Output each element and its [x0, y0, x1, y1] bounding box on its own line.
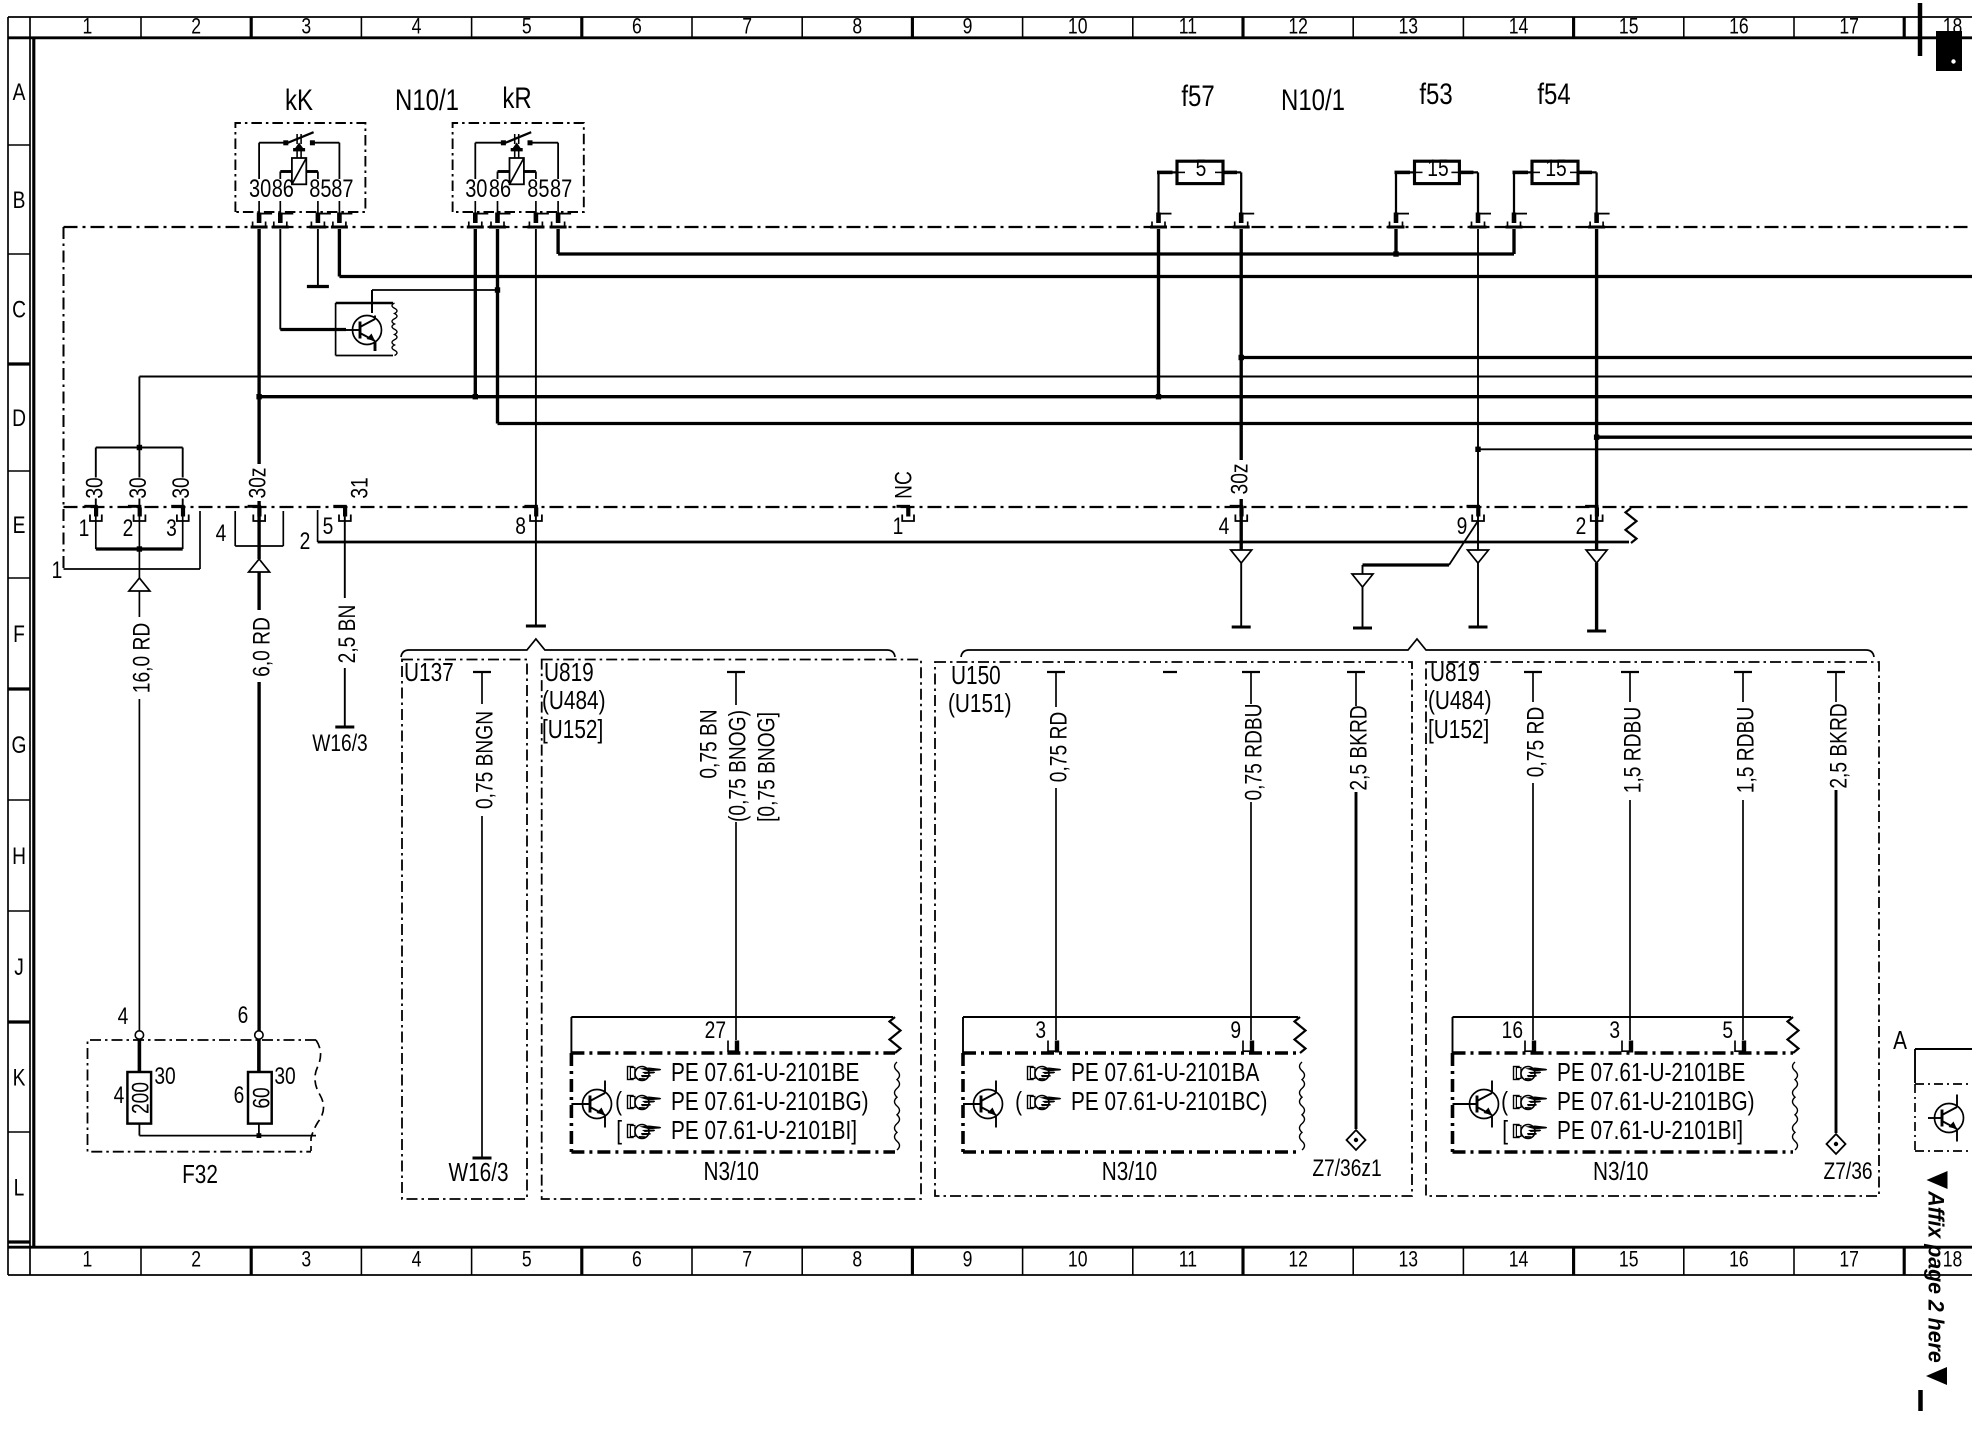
- svg-text:(U484): (U484): [542, 686, 606, 715]
- svg-text:200: 200: [126, 1082, 154, 1114]
- svg-text:16: 16: [1729, 1248, 1749, 1272]
- svg-text:PE 07.61-U-2101BE: PE 07.61-U-2101BE: [671, 1058, 859, 1087]
- fuse f53 left lead: [1396, 171, 1415, 173]
- wire kK-85 termination: [317, 229, 319, 285]
- svg-text:16,0 RD: 16,0 RD: [127, 623, 155, 693]
- svg-text:3: 3: [1609, 1016, 1620, 1044]
- control unit N3/10 3 inner dash-dot box: [1453, 1051, 1794, 1055]
- svg-text:5: 5: [323, 512, 334, 540]
- svg-text:(: (: [1501, 1087, 1508, 1116]
- top ruler band: [8, 36, 1972, 39]
- svg-text:J: J: [14, 953, 24, 981]
- junction transistor collector / kR-86: [495, 287, 500, 292]
- junction kK-30 bus: [256, 394, 261, 399]
- svg-text:2: 2: [1576, 512, 1587, 540]
- pin 4b drop to ground: [1240, 517, 1243, 551]
- relay kR pins at module boundary: [473, 213, 478, 224]
- svg-text:4: 4: [216, 519, 227, 547]
- relay kR switch contact: [501, 140, 506, 145]
- svg-text:PE 07.61-U-2101BI]: PE 07.61-U-2101BI]: [671, 1116, 857, 1145]
- svg-text:15: 15: [1545, 154, 1566, 182]
- svg-text:31: 31: [345, 477, 373, 498]
- U819b stub 1,5 RDBU #2: [1734, 671, 1752, 673]
- svg-text:F: F: [13, 620, 25, 648]
- svg-text:6,0 RD: 6,0 RD: [247, 617, 275, 677]
- svg-text:10: 10: [1068, 1248, 1088, 1272]
- box U819 (U484) [U152] left: [542, 660, 921, 1200]
- svg-text:F32: F32: [182, 1160, 218, 1189]
- svg-text:30: 30: [154, 1062, 175, 1090]
- relay kK switch contact: [283, 140, 288, 145]
- pin 8: [524, 505, 538, 508]
- page outer border: [8, 16, 1972, 18]
- box U819 (U484) [U152] right: [1426, 662, 1879, 1196]
- wire kR-85 down to pin 8: [535, 229, 537, 507]
- N3/10 3 reference row 1: [1514, 1067, 1548, 1081]
- svg-text:30: 30: [465, 175, 487, 203]
- relay kR armature link: [514, 134, 516, 144]
- svg-text:2: 2: [123, 514, 134, 542]
- fuse f53 pins at module boundary: [1394, 213, 1399, 224]
- svg-text:11: 11: [1179, 15, 1197, 39]
- bottom ruler band: [8, 1246, 1972, 1249]
- svg-text:30z: 30z: [243, 468, 271, 499]
- wire f57-left down to 30z bus: [1157, 229, 1160, 397]
- svg-text:30: 30: [167, 477, 195, 498]
- svg-text:N3/10: N3/10: [1102, 1157, 1157, 1186]
- svg-text:30: 30: [249, 175, 271, 203]
- svg-text:E: E: [13, 511, 26, 539]
- svg-text:G: G: [12, 731, 27, 759]
- fuse f54 pins at module boundary: [1512, 213, 1517, 224]
- fuse F32/4 (200A): [138, 1039, 142, 1072]
- svg-text:PE 07.61-U-2101BA: PE 07.61-U-2101BA: [1071, 1058, 1260, 1087]
- pin 9: [1467, 505, 1481, 508]
- U150 stub 2,5 BKRD to Z7/36z1: [1347, 671, 1365, 673]
- svg-text:B: B: [13, 186, 26, 214]
- svg-text:6: 6: [632, 1248, 642, 1272]
- pin 4 (30z): [248, 505, 262, 508]
- svg-text:N10/1: N10/1: [1281, 82, 1345, 116]
- ground W16/3 in U137: [473, 1157, 492, 1160]
- svg-text:60: 60: [247, 1087, 275, 1108]
- svg-text:7: 7: [742, 1248, 752, 1272]
- connector bracket 2 (pins5..2): [317, 510, 319, 542]
- svg-text:W16/3: W16/3: [448, 1158, 508, 1187]
- svg-text:(: (: [615, 1087, 622, 1116]
- relay kK pins at module boundary: [257, 213, 262, 224]
- N3/10 1 reference row 1: [628, 1067, 662, 1081]
- box U150 (U151): [935, 662, 1412, 1196]
- svg-text:kR: kR: [502, 80, 531, 114]
- svg-text:PE 07.61-U-2101BE: PE 07.61-U-2101BE: [1557, 1058, 1745, 1087]
- svg-text:1: 1: [79, 514, 90, 542]
- wire kR-86 down: [496, 229, 499, 424]
- svg-text:30z: 30z: [1226, 464, 1254, 495]
- svg-text:11: 11: [1179, 1248, 1197, 1272]
- svg-text:30: 30: [274, 1062, 295, 1090]
- U137 internal wire stub: [473, 671, 491, 673]
- svg-text:[: [: [616, 1116, 622, 1145]
- svg-text:86: 86: [272, 175, 294, 203]
- svg-text:[0,75 BNOG]: [0,75 BNOG]: [752, 712, 780, 822]
- pin 9 diagonal link: [1449, 521, 1478, 565]
- svg-text:U819: U819: [1430, 658, 1480, 687]
- svg-text:N10/1: N10/1: [395, 82, 459, 116]
- svg-text:9: 9: [1457, 512, 1468, 540]
- svg-text:30: 30: [80, 477, 108, 498]
- svg-text:W16/3: W16/3: [312, 729, 367, 757]
- relay kK dash-dot box: [235, 123, 365, 212]
- wire kK-87 to right edge: [338, 229, 341, 277]
- svg-text:9: 9: [963, 1248, 973, 1272]
- page split mark top right: [1918, 3, 1922, 56]
- svg-text:[U152]: [U152]: [542, 715, 603, 744]
- svg-text:3: 3: [166, 514, 177, 542]
- N10/1 module boundary bottom dash-dot line (E-row): [64, 506, 1973, 508]
- relay kK pin wires: [258, 143, 260, 179]
- svg-text:U150: U150: [951, 661, 1001, 690]
- brace over U137/U819: [401, 639, 895, 657]
- svg-text:(U151): (U151): [948, 689, 1012, 718]
- svg-text:6: 6: [632, 15, 642, 39]
- fuse f57 left lead: [1159, 171, 1178, 173]
- bus 30 (thin) from trio to right edge: [139, 376, 1972, 378]
- inline connector triangle 16,0RD: [129, 578, 150, 591]
- svg-text:PE 07.61-U-2101BG): PE 07.61-U-2101BG): [671, 1087, 869, 1116]
- relay kK coil: [292, 158, 306, 184]
- svg-text:Z7/36z1: Z7/36z1: [1312, 1154, 1381, 1182]
- fuse f57 right lead: [1223, 171, 1241, 173]
- U819 internal wire stub to pin 27: [727, 671, 745, 673]
- svg-text:Affix page 2 here: Affix page 2 here: [1923, 1190, 1948, 1362]
- connector bracket 1 (pins1-3): [199, 511, 201, 569]
- U150 stub 0,75 RDBU: [1242, 671, 1260, 673]
- svg-text:(U484): (U484): [1428, 686, 1492, 715]
- svg-text:U137: U137: [404, 658, 454, 687]
- svg-text:2,5 BKRD: 2,5 BKRD: [1344, 705, 1372, 790]
- svg-text:2: 2: [191, 1248, 201, 1272]
- pin 4b (30z): [1230, 505, 1244, 508]
- wire kR-87 to f53/f54 supply: [556, 229, 559, 254]
- control unit N3/10 2 inner dash-dot box: [963, 1051, 1300, 1055]
- svg-text:4: 4: [1219, 512, 1230, 540]
- svg-text:6: 6: [234, 1081, 245, 1109]
- pin 1 (30): [84, 505, 98, 508]
- fuse f54 left lead: [1514, 171, 1532, 173]
- pin 1 NC: [897, 505, 911, 508]
- svg-text:17: 17: [1839, 1248, 1859, 1272]
- svg-text:5: 5: [1196, 154, 1207, 182]
- svg-text:9: 9: [1230, 1016, 1241, 1044]
- svg-text:5: 5: [522, 1248, 532, 1272]
- N3/10 2 reference row 1: [1028, 1067, 1062, 1081]
- relay kR coil: [510, 158, 524, 184]
- N10/1 module boundary left dash-dot edge: [62, 227, 64, 569]
- svg-text:0,75 RD: 0,75 RD: [1044, 712, 1072, 782]
- U819b stub 1,5 RDBU #1: [1621, 671, 1639, 673]
- svg-text:f54: f54: [1537, 76, 1570, 110]
- trio connect bar: [96, 447, 183, 449]
- svg-text:87: 87: [550, 175, 572, 203]
- svg-text:6: 6: [238, 1001, 249, 1029]
- svg-text:2,5 BN: 2,5 BN: [333, 605, 361, 664]
- svg-text:NC: NC: [889, 471, 917, 499]
- svg-text:4: 4: [118, 1002, 129, 1030]
- svg-text:4: 4: [412, 15, 422, 39]
- wire f53 left drop: [1394, 229, 1397, 254]
- junction f54-right bus: [1594, 435, 1599, 440]
- svg-text:C: C: [12, 295, 26, 323]
- brace over U150/U819b: [961, 639, 1874, 657]
- svg-text:9: 9: [963, 15, 973, 39]
- relay kK armature link: [296, 134, 298, 144]
- wire f57-right down to pin 4b: [1240, 229, 1243, 460]
- fuse f53 body: [1415, 161, 1460, 183]
- svg-text:30: 30: [124, 477, 152, 498]
- svg-text:86: 86: [489, 175, 511, 203]
- svg-text:L: L: [14, 1173, 25, 1201]
- fuse f54 body: [1532, 161, 1578, 183]
- control unit N3/10 1 outline: [571, 1016, 893, 1018]
- relay kR dash-dot box: [453, 123, 584, 212]
- trio lower bracket to 16,0 RD wire: [95, 517, 97, 550]
- bus from kR-86 to right edge: [498, 422, 1973, 425]
- svg-text:8: 8: [852, 15, 862, 39]
- ruler column dividers and numbers: [140, 17, 142, 38]
- svg-text:15: 15: [1619, 1248, 1639, 1272]
- svg-text:2: 2: [191, 15, 201, 39]
- affix page 2 here note: [1927, 1171, 1948, 1189]
- svg-text:10: 10: [1068, 15, 1088, 39]
- svg-text:[: [: [1502, 1116, 1508, 1145]
- svg-text:N3/10: N3/10: [703, 1157, 758, 1186]
- svg-text:1: 1: [893, 512, 904, 540]
- svg-text:H: H: [12, 842, 26, 870]
- svg-text:0,75 RD: 0,75 RD: [1521, 707, 1549, 777]
- svg-text:5: 5: [522, 15, 532, 39]
- relay kR pin wires: [474, 143, 476, 179]
- pin 5 (31): [333, 505, 347, 508]
- svg-text:0,75 RDBU: 0,75 RDBU: [1239, 703, 1267, 800]
- control unit N3/10 1 inner dash-dot box: [571, 1051, 895, 1055]
- transistor icon in N3/10 1: [571, 1103, 590, 1105]
- junction f57-right bus: [1239, 355, 1244, 360]
- F32 torn right edge: [311, 1040, 324, 1151]
- junction f53-right bus: [1475, 447, 1480, 452]
- svg-text:16: 16: [1502, 1016, 1523, 1044]
- pin 8 drop to ground: [535, 517, 537, 627]
- svg-text:kK: kK: [285, 82, 313, 116]
- pin 5 drop 2,5 BN to W16/3: [344, 517, 346, 599]
- wire kK-86 to transistor base: [279, 229, 281, 330]
- svg-text:K: K: [13, 1063, 26, 1091]
- pin 2b: [1585, 505, 1599, 508]
- svg-text:85: 85: [527, 175, 549, 203]
- svg-text:15: 15: [1427, 154, 1448, 182]
- bus f57 to right edge: [1241, 356, 1972, 359]
- U150 lone stub: [1163, 671, 1177, 673]
- svg-text:A: A: [13, 78, 26, 106]
- bus 30z to right edge: [259, 395, 1972, 398]
- svg-text:PE 07.61-U-2101BC): PE 07.61-U-2101BC): [1071, 1087, 1267, 1116]
- svg-text:1: 1: [52, 556, 63, 584]
- F32 internal bus: [139, 1135, 316, 1137]
- transistor icon in N3/10 3: [1453, 1103, 1478, 1105]
- svg-text:4: 4: [412, 1248, 422, 1272]
- bus f53 to right edge (thin): [1478, 448, 1972, 450]
- pin 4 drop to 6,0 RD: [257, 517, 260, 560]
- junction f53-left: [1393, 251, 1398, 256]
- svg-text:D: D: [12, 404, 26, 432]
- svg-text:1,5 RDBU: 1,5 RDBU: [1618, 707, 1646, 793]
- svg-text:85: 85: [309, 175, 331, 203]
- fuse f54 right lead: [1578, 171, 1597, 173]
- svg-text:15: 15: [1619, 15, 1639, 39]
- connector Z7/36z1 diamond: [1347, 1130, 1366, 1150]
- wire kK-30 down to pin 4 (30z): [257, 229, 260, 464]
- svg-text:f57: f57: [1181, 78, 1214, 112]
- svg-text:1,5 RDBU: 1,5 RDBU: [1731, 707, 1759, 793]
- pin 3 (30): [171, 505, 185, 508]
- U819b stub 2,5 BKRD to Z7/36: [1827, 671, 1845, 673]
- svg-text:7: 7: [742, 15, 752, 39]
- transistor icon in A box: [1935, 1104, 1964, 1133]
- transistor Q1 in N10/1: [353, 316, 382, 345]
- svg-text:12: 12: [1288, 1248, 1308, 1272]
- svg-text:A: A: [1893, 1026, 1907, 1055]
- inline connector triangle 6,0RD: [249, 559, 270, 572]
- svg-text:3: 3: [1035, 1016, 1046, 1044]
- box U137: [402, 660, 527, 1200]
- svg-text:8: 8: [852, 1248, 862, 1272]
- svg-text:16: 16: [1729, 15, 1749, 39]
- svg-text:4: 4: [114, 1081, 125, 1109]
- N10/1 module boundary top dash-dot line (B-row): [64, 226, 1973, 228]
- transistor box in N10/1: [336, 302, 393, 304]
- fuse F32/6 (60A): [257, 1039, 261, 1072]
- svg-text:5: 5: [1722, 1016, 1733, 1044]
- svg-text:14: 14: [1509, 1248, 1529, 1272]
- svg-text:12: 12: [1288, 15, 1308, 39]
- svg-text:(: (: [1015, 1087, 1022, 1116]
- svg-text:1: 1: [83, 15, 93, 39]
- connector Z7/36 diamond: [1827, 1134, 1846, 1154]
- svg-text:PE 07.61-U-2101BG): PE 07.61-U-2101BG): [1557, 1087, 1755, 1116]
- svg-text:2,5 BKRD: 2,5 BKRD: [1824, 703, 1852, 788]
- wire f54-right down to pin 2: [1595, 229, 1598, 507]
- wire kR-30 tap: [474, 229, 477, 397]
- svg-text:U819: U819: [544, 658, 594, 687]
- fuse f57 pins at module boundary: [1156, 213, 1161, 224]
- svg-text:3: 3: [301, 15, 311, 39]
- pin 9 drop to ground: [1477, 517, 1479, 551]
- svg-text:PE 07.61-U-2101BI]: PE 07.61-U-2101BI]: [1557, 1116, 1743, 1145]
- control unit N3/10 2 outline: [963, 1016, 1298, 1018]
- svg-text:17: 17: [1839, 15, 1859, 39]
- E-row wire stubs above pins: [95, 499, 97, 508]
- connector bracket 4 (pin4): [234, 511, 236, 546]
- fuse box F32 dash-dot outline: [88, 1040, 317, 1152]
- svg-text:3: 3: [301, 1248, 311, 1272]
- svg-text:13: 13: [1399, 1248, 1419, 1272]
- control unit N3/10 3 outline: [1453, 1016, 1792, 1018]
- row letter cells: [8, 144, 30, 146]
- svg-text:2: 2: [300, 527, 311, 555]
- U150 stub 0,75 RD: [1047, 671, 1065, 673]
- fuse f53 right lead: [1459, 171, 1478, 173]
- pin 2 (30): [128, 505, 141, 508]
- pin 2b drop to ground: [1595, 517, 1598, 551]
- svg-text:13: 13: [1399, 15, 1419, 39]
- U819b stub 0,75 RD: [1524, 671, 1542, 673]
- svg-text:14: 14: [1509, 15, 1529, 39]
- svg-text:[U152]: [U152]: [1428, 715, 1489, 744]
- svg-text:1: 1: [83, 1248, 93, 1272]
- svg-text:27: 27: [705, 1016, 726, 1044]
- wire f53-right down to pin 9: [1477, 229, 1479, 507]
- svg-text:87: 87: [331, 175, 353, 203]
- svg-text:8: 8: [515, 512, 526, 540]
- fuse f57 body: [1177, 161, 1223, 183]
- svg-text:0,75 BN: 0,75 BN: [694, 709, 722, 778]
- ground W16/3 (pin5): [335, 726, 354, 729]
- svg-text:f53: f53: [1419, 76, 1452, 110]
- svg-text:0,75 BNGN: 0,75 BNGN: [470, 711, 498, 809]
- svg-text:Z7/36: Z7/36: [1823, 1157, 1872, 1185]
- bus f54 to right edge: [1597, 436, 1972, 439]
- inner frame left: [32, 38, 35, 1247]
- svg-text:(0,75 BNOG): (0,75 BNOG): [723, 710, 751, 822]
- transistor icon in N3/10 2: [963, 1103, 981, 1105]
- svg-text:N3/10: N3/10: [1593, 1157, 1648, 1186]
